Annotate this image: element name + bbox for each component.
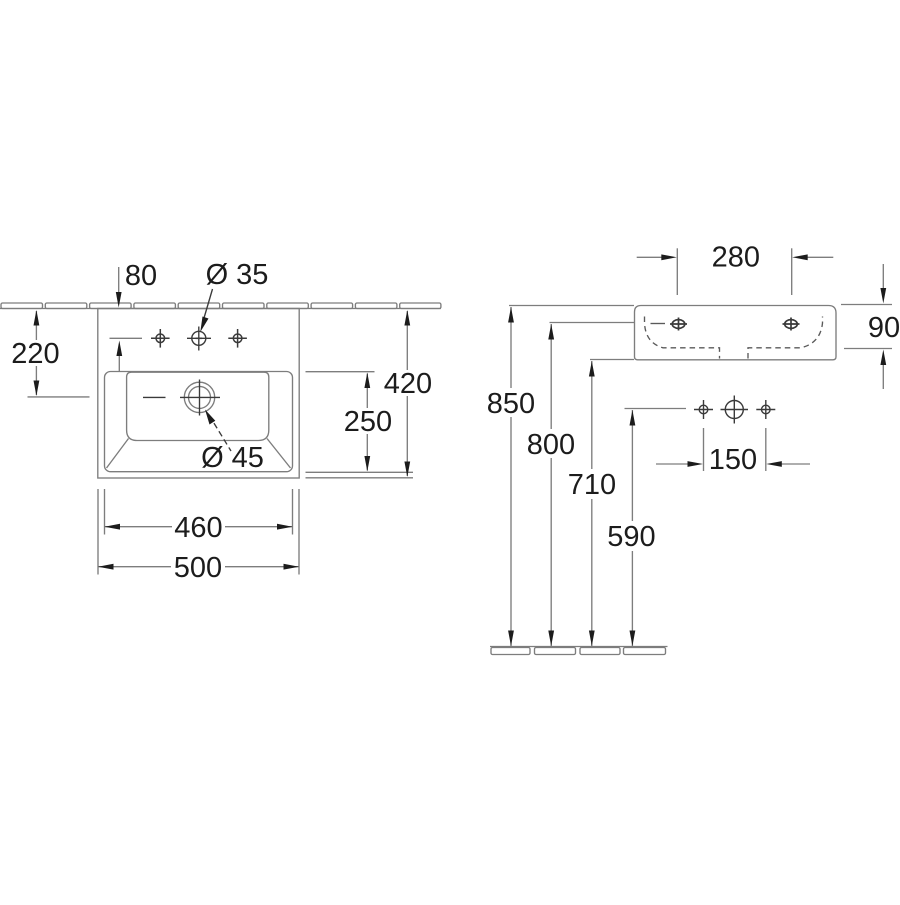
arrow 590 up: [630, 410, 636, 426]
dim 500: line: [98, 566, 299, 568]
dim 80: lower shaft: [118, 353, 120, 372]
svg-text:Ø 45: Ø 45: [201, 442, 264, 474]
side view left oval hole: [670, 318, 687, 331]
svg-text:Ø 35: Ø 35: [206, 259, 269, 291]
dim 90: bottom shaft: [882, 364, 884, 389]
drain centerline vertical: [199, 380, 201, 416]
floor tiles: [491, 648, 666, 655]
dim 710: extension line: [590, 359, 634, 361]
dim 90: top shaft: [882, 264, 884, 290]
dim 150: right extension line: [765, 428, 767, 471]
side view right oval hole: [783, 318, 800, 331]
dim 90: bottom extension line: [844, 348, 892, 350]
wall line (front view): [0, 308, 441, 310]
side view body: [635, 306, 837, 360]
dim 460: extension line right: [292, 489, 294, 535]
tap hole middle circle: [192, 331, 206, 345]
side view inner basin dashed outline: [645, 317, 823, 359]
dim 460: extension line left: [104, 489, 106, 535]
dim 850: vertical line: [510, 307, 512, 646]
wall fixing cross left: [694, 400, 713, 419]
arrow 500 right: [284, 564, 300, 570]
arrow 150 left (points right): [688, 461, 704, 467]
arrow 90 up: [880, 350, 886, 366]
dim 90: top extension line: [841, 304, 892, 306]
arrow 220 down: [34, 381, 40, 397]
svg-text:710: 710: [568, 469, 616, 501]
dim 150: right arrow tail: [779, 463, 811, 465]
dim 280: right extension line: [791, 248, 793, 295]
arrow 420 down: [404, 462, 410, 478]
dim 280: right arrow tail: [804, 256, 833, 258]
side view center dash near left oval: [651, 323, 666, 325]
arrow 280 left (points right): [661, 254, 677, 260]
bowl-to-rim right diagonal: [267, 439, 291, 469]
svg-text:460: 460: [174, 512, 222, 544]
arrow 800 up: [548, 324, 554, 340]
arrow Ø45 leader: [205, 410, 215, 425]
basin bowl outline: [127, 372, 269, 440]
dim 420: outer bottom extension line: [306, 477, 414, 479]
arrow 250 up: [364, 373, 370, 389]
dim 590: vertical line: [631, 410, 633, 646]
arrow 460 right: [277, 524, 293, 530]
dim 80: shaft above wall: [118, 267, 120, 296]
svg-text:80: 80: [125, 260, 157, 292]
svg-text:220: 220: [11, 338, 59, 370]
dim 800: vertical line: [550, 324, 552, 646]
dim 220: extension line at drain level: [28, 396, 90, 398]
dim 150: left arrow tail: [656, 463, 691, 465]
arrow Ø35 leader: [200, 317, 208, 333]
basin inner rim outline: [105, 372, 293, 472]
floor line: [490, 646, 668, 648]
wall tiles row: [1, 303, 441, 309]
dim 710: vertical line: [591, 361, 593, 646]
leader line for Ø45 (dashed): [209, 415, 231, 451]
dim 250/420: inner bottom extension line: [306, 471, 414, 473]
tap hole middle crosshair: [187, 337, 211, 339]
dim 220: vertical line: [35, 311, 37, 395]
tap hole cross left: [151, 329, 170, 348]
dim 800: extension line: [550, 322, 635, 324]
svg-text:590: 590: [607, 521, 655, 553]
arrow 500 left: [98, 564, 114, 570]
dim 500: extension line right: [298, 489, 300, 575]
svg-text:280: 280: [712, 242, 760, 274]
dim 280: left extension line: [676, 248, 678, 295]
svg-text:850: 850: [487, 388, 535, 420]
arrow 590 down (floor): [630, 631, 636, 647]
dim 590: extension line: [625, 408, 687, 410]
bowl-to-rim left diagonal: [107, 439, 129, 469]
arrow 90 down: [880, 288, 886, 304]
tap hole cross right: [228, 329, 247, 348]
dim 250: top extension line: [306, 371, 375, 373]
svg-text:90: 90: [868, 312, 900, 344]
svg-text:150: 150: [709, 444, 757, 476]
leader line for Ø35: [204, 289, 213, 318]
arrow 150 right (points left): [766, 461, 782, 467]
dim 280: left arrow tail: [637, 256, 665, 258]
arrow 250 down: [364, 456, 370, 472]
dim 80: tap line extension: [110, 337, 143, 339]
arrow 420 up: [404, 310, 410, 326]
svg-text:800: 800: [527, 429, 575, 461]
dim 850: extension line: [509, 305, 634, 307]
arrow 710 down (floor): [589, 631, 595, 647]
arrow 80 up (lower): [116, 341, 122, 357]
arrow 710 up: [589, 361, 595, 377]
arrow 800 down (floor): [548, 631, 554, 647]
dim 250: vertical line: [366, 374, 368, 471]
dim 420: vertical line: [406, 311, 408, 476]
dim 150: left extension line: [703, 428, 705, 471]
dim 500: extension line left: [97, 489, 99, 575]
drain inner circle: [189, 386, 211, 408]
wall fixing cross right: [756, 400, 775, 419]
arrow 850 down (floor): [508, 631, 514, 647]
svg-text:420: 420: [384, 368, 432, 400]
arrow 850 up: [508, 307, 514, 323]
drain centerline horizontal: [180, 396, 220, 398]
arrow 220 up: [34, 310, 40, 326]
dim 460: line: [105, 526, 293, 528]
drain centerline left dash: [143, 396, 166, 398]
wall fixing circle center: [721, 396, 749, 424]
arrow 80 down: [116, 292, 122, 308]
drain outer circle: [184, 382, 214, 412]
arrow 280 right (points left): [792, 254, 808, 260]
svg-text:250: 250: [344, 406, 392, 438]
svg-text:500: 500: [174, 552, 222, 584]
arrow 460 left: [105, 524, 121, 530]
basin outer rectangle (front view): [98, 309, 299, 479]
